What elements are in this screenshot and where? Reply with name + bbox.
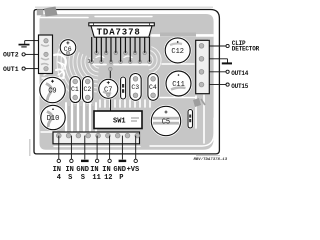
- terminal IN11: [95, 159, 98, 162]
- resistor R1: [121, 77, 126, 99]
- bottom labels row2: [57, 174, 124, 182]
- svg-text:4: 4: [57, 174, 61, 182]
- left connector interior traces: [41, 45, 49, 66]
- svg-text:GND: GND: [76, 166, 89, 174]
- capacitor C5: [151, 106, 180, 135]
- capacitor C11: [166, 71, 191, 96]
- scan shadow below bottom edge: [196, 155, 220, 157]
- svg-text:1: 1: [88, 59, 91, 65]
- PCB board outline: [34, 10, 219, 154]
- terminal OUT14: [209, 70, 249, 77]
- resistor R2: [188, 110, 193, 129]
- terminal IN12: [108, 159, 111, 162]
- IC U1 TDA7378 pin pads: [90, 51, 151, 63]
- capacitor C2: [83, 77, 93, 103]
- svg-text:P: P: [119, 174, 123, 182]
- svg-text:C7: C7: [104, 86, 112, 94]
- wire C7 to pad above: [109, 70, 111, 81]
- copper pour: [40, 14, 214, 150]
- svg-text:12: 12: [104, 174, 112, 182]
- IC U1 TDA7378 tab: [89, 23, 155, 26]
- terminal IN4: [57, 159, 60, 162]
- svg-text:+VS: +VS: [127, 166, 140, 174]
- svg-text:C4: C4: [149, 84, 157, 91]
- capacitor C6: [60, 40, 76, 56]
- IC U1 tab notches: [94, 23, 150, 26]
- svg-text:C6: C6: [64, 46, 72, 53]
- svg-text:RBV/TDA7378-13: RBV/TDA7378-13: [194, 157, 228, 162]
- svg-text:OUT2: OUT2: [3, 52, 19, 59]
- IC U1 TDA7378 pins: [92, 37, 150, 62]
- svg-text:C1: C1: [71, 86, 79, 93]
- svg-text:IN: IN: [65, 166, 73, 174]
- connector J1 (left, OUT) body: [39, 35, 53, 74]
- connector J2 (right) body: [196, 40, 210, 93]
- left connector pads: [44, 39, 48, 43]
- ground symbol left: [19, 41, 39, 47]
- svg-text:SW1: SW1: [113, 117, 126, 125]
- diode D10: [41, 105, 65, 129]
- svg-text:S: S: [81, 174, 85, 182]
- capacitor C12: [165, 38, 190, 63]
- svg-text:11: 11: [92, 174, 100, 182]
- terminal OUT2: [3, 52, 39, 59]
- terminal OUT1: [3, 66, 39, 73]
- trace texture: white routing channels: [40, 17, 214, 147]
- capacitor C9: [40, 77, 65, 102]
- svg-text:IN: IN: [53, 166, 61, 174]
- capacitor C7: [99, 79, 118, 98]
- wire C7 to SW1: [110, 98, 112, 112]
- svg-text:OUT1: OUT1: [3, 66, 19, 73]
- terminal +VS: [134, 159, 137, 162]
- small patch top-left: [37, 9, 44, 15]
- dark scan patch crossing top edge: [44, 7, 58, 17]
- svg-text:OUT15: OUT15: [231, 83, 249, 90]
- switch SW1: [94, 111, 142, 129]
- bottom connector pads: [56, 133, 61, 138]
- terminal CLIP DETECTOR: [209, 40, 259, 53]
- svg-text:C9: C9: [48, 88, 56, 96]
- svg-text:C2: C2: [84, 86, 92, 93]
- svg-text:C11: C11: [172, 81, 185, 89]
- svg-text:IN: IN: [90, 166, 98, 174]
- svg-text:C12: C12: [171, 48, 184, 56]
- terminal OUT15: [209, 83, 249, 90]
- svg-text:TDA7378: TDA7378: [97, 27, 141, 37]
- capacitor C1: [70, 77, 81, 103]
- terminal GND S bar: [81, 160, 89, 162]
- svg-text:IN: IN: [102, 166, 110, 174]
- svg-text:C5: C5: [162, 119, 170, 127]
- connector J3 (bottom) body: [53, 132, 140, 144]
- svg-text:GND: GND: [113, 166, 126, 174]
- scan shadow above top edge: [35, 6, 213, 8]
- svg-text:C3: C3: [131, 84, 139, 91]
- capacitor C4: [148, 74, 158, 101]
- capacitor C3: [130, 74, 141, 101]
- right connector pads: [199, 43, 204, 48]
- terminal IN3: [70, 159, 73, 162]
- svg-text:DETECTOR: DETECTOR: [232, 46, 260, 53]
- terminal GND P bar: [119, 160, 127, 162]
- svg-text:D10: D10: [47, 115, 60, 123]
- bottom wires: [59, 136, 136, 160]
- svg-text:OUT14: OUT14: [231, 70, 249, 77]
- IC U1 TDA7378 body: [91, 26, 152, 37]
- svg-text:S: S: [68, 174, 72, 182]
- bottom labels row1: [53, 166, 140, 174]
- ground symbol right: [209, 59, 232, 64]
- trace texture: darker copper traces: [46, 33, 205, 131]
